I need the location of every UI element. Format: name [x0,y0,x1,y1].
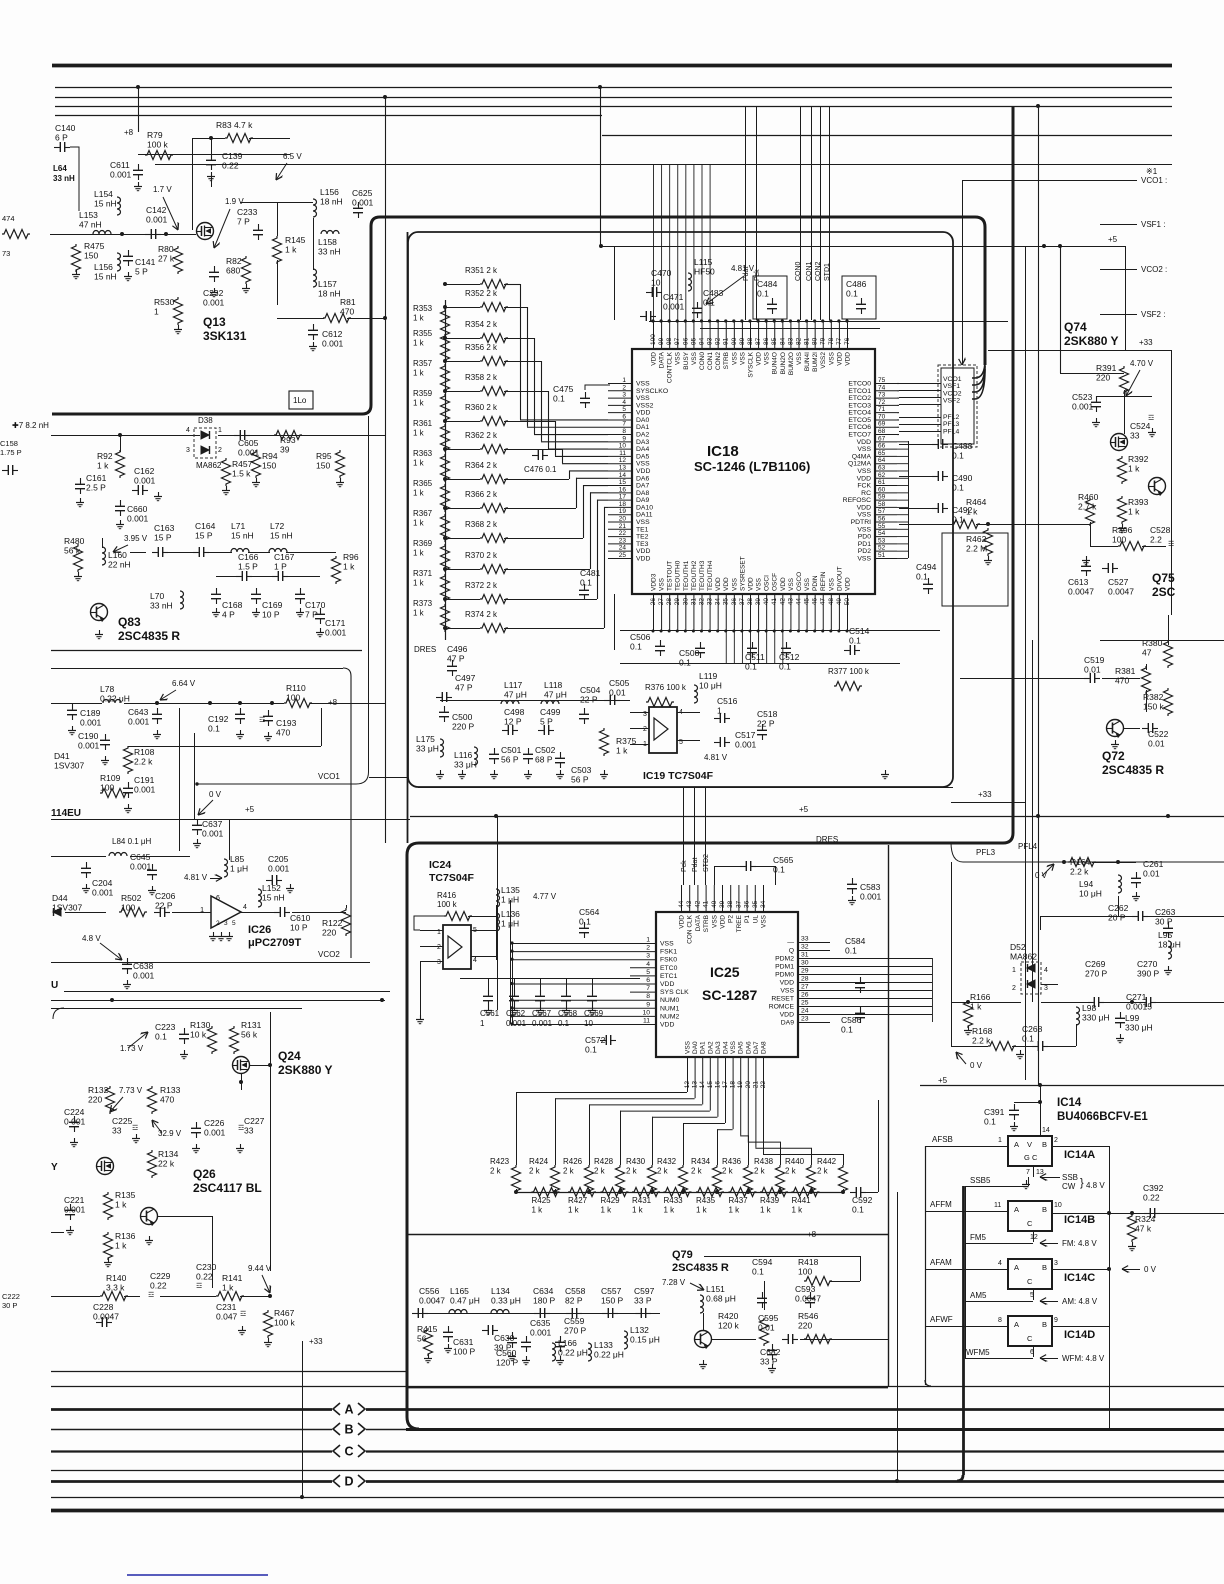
svg-text:BUSY: BUSY [683,351,690,369]
svg-text:1 k: 1 k [760,1206,772,1215]
svg-text:C168: C168 [222,600,243,610]
svg-text:100 k: 100 k [437,900,458,909]
svg-text:R83 4.7 k: R83 4.7 k [216,120,253,130]
svg-text:40: 40 [711,900,718,908]
svg-text:☲: ☲ [196,1283,202,1290]
svg-text:7: 7 [1026,1169,1030,1176]
svg-text:C269: C269 [1085,959,1106,969]
svg-text:3: 3 [622,392,626,399]
svg-text:C: C [1027,1277,1033,1286]
svg-text:15 P: 15 P [154,533,172,543]
svg-text:2 k: 2 k [657,1167,669,1176]
svg-text:AFWF: AFWF [930,1315,953,1324]
svg-text:89: 89 [739,337,746,345]
svg-text:BUM2I: BUM2I [812,352,819,372]
svg-text:47 μH: 47 μH [504,690,527,700]
svg-text:0.1: 0.1 [208,724,220,734]
svg-text:VSS: VSS [804,577,811,591]
svg-text:0.001: 0.001 [133,971,155,981]
svg-text:C483: C483 [703,288,724,298]
svg-text:1 k: 1 k [664,1206,676,1215]
svg-text:2: 2 [622,384,626,391]
svg-text:28: 28 [666,598,673,606]
svg-text:A: A [1014,1320,1019,1329]
svg-text:9: 9 [646,1001,650,1008]
svg-text:C191: C191 [134,775,155,785]
svg-text:VDD: VDD [844,352,851,366]
svg-text:33: 33 [244,1126,254,1136]
svg-text:R352 2 k: R352 2 k [465,289,498,298]
svg-text:C631: C631 [453,1337,474,1347]
svg-text:56 P: 56 P [571,775,589,785]
svg-text:L166: L166 [558,1338,577,1348]
svg-text:79: 79 [820,337,827,345]
svg-text:114EU: 114EU [51,808,81,819]
svg-text:1: 1 [218,427,222,434]
svg-text:BUN4O: BUN4O [772,352,779,374]
svg-text:99: 99 [658,337,665,345]
svg-text:0.1: 0.1 [679,658,691,668]
svg-text:D41: D41 [54,751,70,761]
svg-text:R435: R435 [696,1196,716,1205]
svg-text:0.001: 0.001 [325,628,347,638]
svg-text:VSS: VSS [857,555,871,562]
svg-text:DA2: DA2 [707,1041,714,1054]
svg-text:OSCI: OSCI [764,575,771,591]
svg-text:1 k: 1 k [343,562,355,572]
svg-text:DATA: DATA [695,914,702,931]
svg-text:C: C [1027,1219,1033,1228]
svg-text:2 k: 2 k [754,1167,766,1176]
svg-text:Q12MA: Q12MA [848,461,872,468]
svg-text:36: 36 [731,598,738,606]
svg-text:7 P: 7 P [237,217,250,227]
svg-text:100: 100 [798,1267,812,1277]
svg-text:38: 38 [727,900,734,908]
svg-text:B: B [1042,1205,1047,1214]
svg-text:R391: R391 [1096,363,1117,373]
svg-text:150: 150 [316,461,330,471]
svg-text:R442: R442 [817,1157,837,1166]
svg-text:C492: C492 [952,505,973,515]
svg-text:VDD: VDD [636,548,650,555]
svg-text:32: 32 [698,598,705,606]
svg-text:96: 96 [682,337,689,345]
svg-text:45: 45 [804,598,811,606]
svg-text:9.44 V: 9.44 V [248,1264,272,1273]
svg-text:21: 21 [619,523,627,530]
svg-text:23: 23 [619,537,627,544]
svg-text:+5: +5 [799,805,809,814]
svg-text:MA862: MA862 [196,461,222,470]
svg-text:ROMCE: ROMCE [769,1004,795,1011]
svg-text:0.047: 0.047 [216,1312,238,1322]
svg-text:0.1: 0.1 [752,1267,764,1277]
svg-text:L70: L70 [150,591,164,601]
svg-text:1 k: 1 k [413,609,425,618]
svg-text:C505: C505 [609,678,630,688]
svg-text:70: 70 [878,413,886,420]
svg-text:56: 56 [878,516,886,523]
svg-text:R423: R423 [490,1157,510,1166]
svg-text:A: A [1014,1140,1019,1149]
svg-text:PDM2: PDM2 [775,956,794,963]
svg-text:100: 100 [1112,535,1126,545]
svg-text:AM: 4.8 V: AM: 4.8 V [1062,1297,1098,1306]
svg-text:1 k: 1 k [568,1206,580,1215]
svg-text:1 k: 1 k [632,1206,644,1215]
svg-text:0.1: 0.1 [155,1032,167,1042]
svg-text:C565: C565 [773,855,794,865]
svg-text:48: 48 [828,598,835,606]
svg-text:VDD: VDD [651,352,658,366]
svg-text:7.28 V: 7.28 V [662,1278,686,1287]
svg-text:C527: C527 [1108,577,1129,587]
svg-text:3.95 V: 3.95 V [124,534,148,543]
svg-text:390 P: 390 P [1137,969,1160,979]
svg-text:2: 2 [437,944,441,951]
svg-text:R416: R416 [437,891,457,900]
svg-text:43: 43 [787,598,794,606]
svg-text:C612: C612 [322,329,343,339]
svg-text:61: 61 [878,479,886,486]
svg-text:0.15 μH: 0.15 μH [630,1335,660,1345]
svg-text:VDD: VDD [836,352,843,366]
svg-text:7.73 V: 7.73 V [119,1086,143,1095]
svg-text:33 P: 33 P [760,1357,778,1367]
svg-text:6.5 V: 6.5 V [283,152,302,161]
svg-text:C556: C556 [419,1286,440,1296]
svg-text:150: 150 [262,461,276,471]
svg-text:C193: C193 [276,718,297,728]
svg-text:SYSCLKO: SYSCLKO [636,388,668,395]
svg-text:67: 67 [878,435,886,442]
svg-text:26: 26 [801,992,809,999]
svg-text:R82: R82 [226,256,242,266]
svg-text:R122: R122 [322,918,343,928]
svg-text:VSS: VSS [731,577,738,591]
svg-text:10 P: 10 P [262,610,280,620]
svg-text:0.22: 0.22 [150,1281,167,1291]
svg-text:PFL4: PFL4 [1018,842,1038,851]
svg-text:0.001: 0.001 [128,717,150,727]
svg-text:IC14: IC14 [1057,1097,1082,1109]
svg-text:R94: R94 [262,451,278,461]
svg-text:23: 23 [801,1016,809,1023]
svg-text:DA6: DA6 [636,475,649,482]
svg-text:1 k: 1 k [413,314,425,323]
svg-text:C528: C528 [1150,525,1171,535]
svg-text:R434: R434 [691,1157,711,1166]
svg-text:0.1: 0.1 [558,1019,570,1028]
svg-text:FCK: FCK [857,483,871,490]
svg-text:0.001: 0.001 [134,785,156,795]
svg-text:IC14A: IC14A [1064,1149,1095,1161]
svg-text:22 nH: 22 nH [108,560,131,570]
svg-text:VSF1: VSF1 [943,383,960,390]
svg-text:C171: C171 [325,618,346,628]
svg-text:64: 64 [878,457,886,464]
svg-text:R438: R438 [754,1157,774,1166]
svg-text:6: 6 [216,895,220,902]
svg-text:C222: C222 [2,1292,20,1301]
svg-text:VSS: VSS [796,351,803,365]
svg-text:☲: ☲ [1168,541,1174,548]
svg-text:CON CLK: CON CLK [687,914,694,944]
svg-text:0.22 μH: 0.22 μH [558,1348,588,1358]
svg-text:91: 91 [723,337,730,345]
svg-text:1.5 P: 1.5 P [238,562,258,572]
svg-text:AFSB: AFSB [932,1135,953,1144]
svg-text:L78: L78 [100,684,114,694]
svg-text:SSB: SSB [1062,1173,1078,1182]
svg-text:C230: C230 [196,1262,217,1272]
svg-text:330 μH: 330 μH [1125,1023,1153,1033]
svg-text:1 μH: 1 μH [230,864,248,874]
svg-text:OSCF: OSCF [772,573,779,591]
svg-text:ETC0: ETC0 [660,965,678,972]
svg-text:180 P: 180 P [533,1296,556,1306]
svg-text:L71: L71 [231,521,245,531]
svg-text:80: 80 [812,337,819,345]
svg-text:270 P: 270 P [564,1326,587,1336]
svg-text:41: 41 [771,598,778,606]
svg-text:0.1: 0.1 [916,572,928,582]
svg-text:0.0015: 0.0015 [1126,1002,1152,1012]
svg-text:R131: R131 [241,1020,262,1030]
svg-text:1 k: 1 k [413,339,425,348]
svg-text:3: 3 [1044,985,1048,992]
svg-text:R79: R79 [147,130,163,140]
svg-text:C471: C471 [663,292,684,302]
svg-text:0.001: 0.001 [735,740,757,750]
svg-text:R360 2 k: R360 2 k [465,403,498,412]
svg-text:C224: C224 [64,1107,85,1117]
svg-text:D38: D38 [198,416,213,425]
svg-text:C522: C522 [1148,729,1169,739]
svg-text:32: 32 [801,944,809,951]
svg-text:R130: R130 [190,1020,211,1030]
svg-text:IC24: IC24 [429,859,451,871]
svg-text:120 k: 120 k [718,1321,740,1331]
svg-text:47 nH: 47 nH [79,220,102,230]
svg-text:10 k: 10 k [190,1030,207,1040]
svg-text:PD2: PD2 [858,548,871,555]
svg-text:R439: R439 [760,1196,780,1205]
svg-text:C584: C584 [845,936,866,946]
svg-text:TEOUTH4: TEOUTH4 [707,560,714,591]
svg-text:0.1: 0.1 [952,515,964,525]
svg-text:VDD: VDD [747,577,754,591]
svg-text:24: 24 [801,1008,809,1015]
svg-text:52: 52 [878,545,886,552]
svg-text:92: 92 [715,337,722,345]
svg-text:ETCO5: ETCO5 [848,417,871,424]
svg-text:30 P: 30 P [1155,917,1173,927]
svg-text:2 k: 2 k [691,1167,703,1176]
svg-text:74: 74 [878,384,886,391]
svg-text:TREE: TREE [736,914,743,932]
svg-text:2 k: 2 k [490,1167,502,1176]
svg-text:47 P: 47 P [447,654,465,664]
svg-text:VSS: VSS [780,988,794,995]
svg-text:PFL3: PFL3 [943,421,959,428]
svg-text:VCO1: VCO1 [318,772,340,781]
svg-text:L160: L160 [108,550,127,560]
svg-text:VSS: VSS [828,351,835,365]
svg-text:ETCO7: ETCO7 [848,432,871,439]
svg-text:11: 11 [643,1018,650,1025]
svg-text:R530: R530 [154,297,175,307]
svg-text:71: 71 [878,406,886,413]
svg-text:}: } [1080,1177,1084,1189]
svg-text:14: 14 [1042,1127,1050,1134]
svg-text:C625: C625 [352,188,373,198]
svg-text:0.0047: 0.0047 [419,1296,445,1306]
svg-text:ETCO3: ETCO3 [848,402,871,409]
svg-text:75: 75 [878,377,886,384]
svg-text:TEOUTH3: TEOUTH3 [699,560,706,591]
svg-text:L117: L117 [504,680,523,690]
svg-text:33: 33 [112,1126,122,1136]
svg-text:2SC4835 R: 2SC4835 R [1102,763,1164,777]
svg-text:470: 470 [160,1095,174,1105]
svg-text:2: 2 [1054,1137,1058,1144]
svg-text:R359: R359 [413,389,433,398]
svg-text:1 k: 1 k [792,1206,804,1215]
svg-text:L153: L153 [79,210,98,220]
svg-text:R141: R141 [222,1273,243,1283]
svg-text:DA11: DA11 [636,512,653,519]
svg-text:37: 37 [739,598,746,606]
svg-text:66: 66 [878,443,886,450]
svg-text:32.9 V: 32.9 V [158,1129,182,1138]
svg-text:1.75 P: 1.75 P [0,448,22,457]
svg-text:R427: R427 [568,1196,588,1205]
svg-text:R133: R133 [160,1085,181,1095]
svg-text:R369: R369 [413,539,433,548]
svg-text:60: 60 [878,486,886,493]
svg-text:R475: R475 [84,241,105,251]
svg-text:R420: R420 [718,1311,739,1321]
svg-text:R380: R380 [1142,638,1163,648]
svg-text:88: 88 [747,337,754,345]
svg-text:0.001: 0.001 [203,298,225,308]
svg-text:R426: R426 [563,1157,583,1166]
svg-text:33: 33 [1130,431,1140,441]
svg-text:10 μH: 10 μH [699,681,722,691]
svg-text:R135: R135 [115,1190,136,1200]
svg-text:VSS: VSS [857,446,871,453]
svg-text:VDD: VDD [720,915,727,929]
svg-text:REFOSC: REFOSC [843,497,871,504]
svg-text:L158: L158 [318,237,337,247]
svg-text:C223: C223 [155,1022,176,1032]
svg-text:B: B [1042,1320,1047,1329]
svg-text:C519: C519 [1084,655,1105,665]
svg-text:VDD: VDD [780,577,787,591]
svg-text:Q75: Q75 [1152,571,1175,585]
svg-text:R110: R110 [286,683,306,693]
svg-text:56: 56 [417,1334,427,1344]
svg-text:L157: L157 [318,279,337,289]
svg-text:C594: C594 [752,1257,773,1267]
svg-text:1 k: 1 k [413,549,425,558]
svg-text:100 k: 100 k [147,140,169,150]
svg-text:0.01: 0.01 [609,688,626,698]
svg-text:220: 220 [88,1095,102,1105]
svg-text:R376 100 k: R376 100 k [645,683,687,692]
svg-text:R425: R425 [532,1196,552,1205]
svg-text:1: 1 [717,706,722,716]
svg-text:VSS: VSS [857,468,871,475]
svg-text:R358 2 k: R358 2 k [465,373,498,382]
svg-text:R355: R355 [413,329,433,338]
svg-text:41: 41 [703,900,710,908]
svg-text:R428: R428 [594,1157,614,1166]
svg-text:C: C [344,1445,353,1459]
svg-text:Pdat: Pdat [743,267,750,281]
svg-text:2SK880 Y: 2SK880 Y [278,1063,333,1077]
svg-text:L156: L156 [320,187,339,197]
svg-text:RESET: RESET [771,996,794,1003]
svg-text:6: 6 [622,413,626,420]
svg-text:C564: C564 [579,907,600,917]
svg-text:C660: C660 [127,504,148,514]
svg-text:0.001: 0.001 [532,1019,553,1028]
svg-text:0.1: 0.1 [984,1117,996,1127]
svg-text:22 P: 22 P [580,695,598,705]
svg-text:R415: R415 [417,1324,438,1334]
svg-text:FM: 4.8 V: FM: 4.8 V [1062,1239,1097,1248]
svg-text:C502: C502 [535,745,556,755]
svg-text:0.1: 0.1 [846,289,858,299]
svg-text:C139: C139 [222,151,243,161]
svg-text:L135: L135 [501,885,520,895]
svg-text:PDTRI: PDTRI [851,519,872,526]
svg-text:C506: C506 [630,632,651,642]
svg-text:R166: R166 [970,992,991,1002]
svg-text:220: 220 [798,1321,812,1331]
svg-text:C500: C500 [452,712,473,722]
svg-text:0.001: 0.001 [64,1205,86,1215]
svg-text:C162: C162 [134,466,155,476]
svg-text:0.1: 0.1 [845,946,857,956]
svg-text:0.001: 0.001 [92,888,114,898]
svg-text:NUM1: NUM1 [660,1005,679,1012]
svg-text:C206: C206 [155,891,176,901]
svg-text:1: 1 [480,1019,485,1028]
svg-text:WFM5: WFM5 [966,1348,990,1357]
svg-text:R392: R392 [1128,454,1149,464]
svg-text:1 k: 1 k [413,429,425,438]
svg-text:DA1: DA1 [636,424,649,431]
svg-text:0.1: 0.1 [580,578,592,588]
svg-text:270 P: 270 P [1085,969,1108,979]
svg-text:2 k: 2 k [626,1167,638,1176]
svg-text:DRES: DRES [414,645,436,654]
svg-text:VDD: VDD [844,577,851,591]
svg-text:62: 62 [878,472,886,479]
svg-text:42: 42 [779,598,786,606]
svg-text:3: 3 [186,447,190,454]
svg-text:R80: R80 [158,244,174,254]
svg-text:33 nH: 33 nH [318,247,341,257]
svg-text:0.01: 0.01 [1084,665,1101,675]
svg-text:2.2 k: 2.2 k [134,757,153,767]
svg-text:8: 8 [622,428,626,435]
svg-text:81: 81 [804,337,811,345]
